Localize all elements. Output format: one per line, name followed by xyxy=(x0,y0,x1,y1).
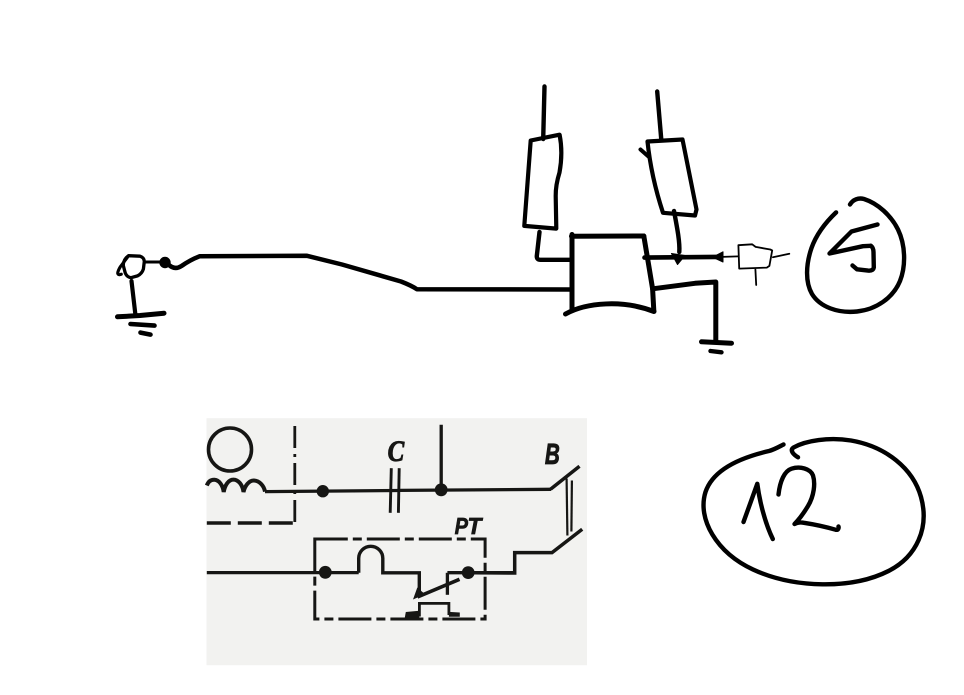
amplifier block U1 bottom edge xyxy=(566,304,655,314)
switch B contact plates xyxy=(565,479,568,536)
wire winding to capacitor xyxy=(265,491,399,492)
wire node to amplifier input (long) xyxy=(169,256,572,290)
moving contact arrowhead xyxy=(413,588,425,600)
resistor R1 xyxy=(524,135,561,229)
lower wire into relay xyxy=(207,571,359,574)
amplifier block U1 left edge xyxy=(570,235,575,310)
node dot xyxy=(462,566,475,579)
annotation digit 5 xyxy=(830,225,878,254)
resistor R2 xyxy=(648,140,697,216)
annotation circled 12 : ellipse xyxy=(704,439,924,584)
resistor R2 bottom lead wire xyxy=(674,211,679,252)
ground (right) xyxy=(702,342,732,343)
contact base xyxy=(419,603,449,616)
contact base right pad xyxy=(449,612,460,617)
contact base left pad xyxy=(405,611,420,618)
resistor R1 top lead wire xyxy=(543,87,544,140)
wire from top to node xyxy=(440,425,443,490)
connector right lead xyxy=(773,254,789,257)
arrowhead at R2 lead junction xyxy=(672,254,686,265)
fixed contact post xyxy=(446,573,449,595)
label B xyxy=(545,444,559,464)
resistor R1 bottom lead wire xyxy=(537,232,571,260)
wire microphone to node xyxy=(145,261,160,264)
connector bottom lead xyxy=(754,270,757,286)
inductor winding xyxy=(207,480,265,492)
ground wire (left) xyxy=(132,281,136,316)
label PT letter T xyxy=(469,518,483,534)
output wire xyxy=(645,255,717,260)
node dot at input xyxy=(160,257,170,267)
annotation digit 1 xyxy=(744,484,773,539)
annotation circled 5 : circle xyxy=(807,199,904,312)
microphone tail stroke xyxy=(118,257,128,275)
label PT xyxy=(455,518,468,534)
arrowhead at output wire end xyxy=(713,252,724,262)
microphone input transducer xyxy=(123,256,144,278)
wire capacitor to switch xyxy=(400,489,552,490)
switch B upper arm xyxy=(551,466,580,489)
node dot xyxy=(319,566,332,579)
resistor R2 corner overshoot stroke xyxy=(641,150,650,158)
wire amplifier to right ground xyxy=(653,282,716,341)
magneto block boundary dash-dot vertical xyxy=(293,426,296,523)
node dot xyxy=(435,483,448,496)
generator circle xyxy=(209,428,252,471)
resistor R2 top lead wire xyxy=(657,92,661,140)
contact blade xyxy=(418,579,460,597)
connector plug symbol xyxy=(738,244,772,268)
amplifier block U1 right edge xyxy=(644,236,654,311)
thermal element with bump xyxy=(359,546,420,592)
amplifier block U1 top edge xyxy=(572,234,644,239)
magneto block boundary dashed horizontal xyxy=(207,521,295,525)
thin link wire to connector xyxy=(722,255,738,258)
wire to node xyxy=(447,571,514,574)
scanned schematic background xyxy=(207,418,588,665)
capacitor C plates xyxy=(390,468,391,513)
annotation digit 2 xyxy=(779,468,839,530)
switch B lower arm and wire to relay xyxy=(475,529,583,573)
node dot xyxy=(317,485,329,497)
relay PT dash-dot box xyxy=(315,539,485,619)
label C xyxy=(388,441,404,461)
ground (left) xyxy=(118,313,165,317)
